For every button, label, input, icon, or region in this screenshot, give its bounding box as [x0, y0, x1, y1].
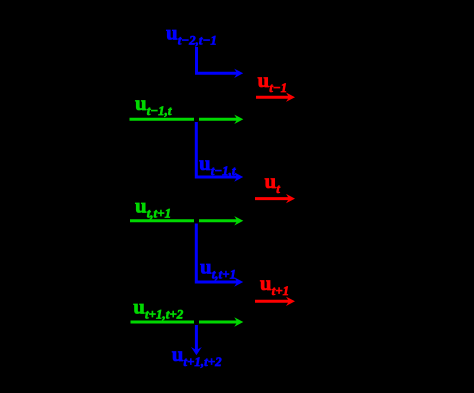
wire: red arrow u_{t-1} — [256, 93, 295, 102]
wire: green arrow u_{t+1,t+2} left segment — [131, 321, 195, 324]
wire: green arrow u_{t,t+1} left segment — [130, 219, 194, 222]
wire: green arrow u_{t-1,t} left segment — [130, 118, 195, 121]
wire: blue down arrow u_{t+1,t+2} — [191, 325, 202, 355]
wire: green arrow u_{t,t+1} right segment with head — [199, 216, 243, 225]
wire: blue elbow arrow u_{t,t+1} down — [196, 224, 243, 287]
wire: green arrow u_{t-1,t} right segment with head — [199, 115, 243, 124]
wire: blue elbow arrow from u_{t-2,t-1} — [197, 47, 244, 78]
wire: red arrow u_t — [255, 194, 295, 203]
wire: red arrow u_{t+1} — [255, 297, 295, 306]
wire: blue elbow arrow u_{t-1,t} down — [196, 122, 243, 182]
wire: green arrow u_{t+1,t+2} right segment with head — [199, 317, 243, 326]
